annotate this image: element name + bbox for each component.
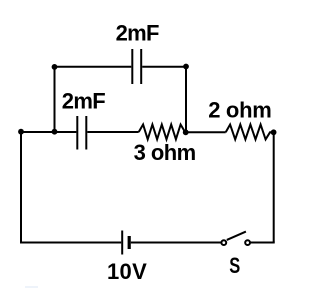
node right junction dot: [271, 129, 277, 135]
battery V1 short plate: [128, 236, 131, 249]
resistor R2 2 ohm zigzag: [226, 125, 274, 140]
switch S lever: [227, 232, 246, 240]
faint artifact mark bottom-left: [25, 286, 38, 288]
capacitor C1 left plate: [131, 49, 133, 84]
wire top branch right segment: [142, 66, 186, 68]
wire vertical from node B down: [185, 67, 187, 133]
svg-text:10V: 10V: [107, 259, 147, 284]
svg-text:3 ohm: 3 ohm: [134, 140, 196, 165]
wire bottom left segment: [20, 242, 121, 244]
battery V1 long plate: [121, 231, 123, 255]
svg-text:2 ohm: 2 ohm: [208, 98, 271, 123]
wire left vertical: [20, 132, 22, 244]
switch S left terminal circle: [221, 240, 226, 245]
switch S right terminal circle: [245, 240, 250, 245]
wire top branch left segment: [55, 66, 132, 68]
capacitor C1 right plate: [140, 49, 142, 84]
wire right vertical: [273, 132, 275, 242]
wire middle row right segment: [186, 131, 226, 133]
capacitor C2 left plate: [76, 116, 78, 150]
svg-text:S: S: [229, 253, 240, 278]
wire middle row left segment: [21, 131, 76, 133]
resistor R1 3 ohm zigzag: [139, 125, 186, 140]
svg-text:2mF: 2mF: [116, 21, 159, 46]
node B top-right junction dot: [183, 64, 189, 70]
wire battery to switch: [131, 242, 222, 244]
node A top-left junction dot: [52, 64, 58, 70]
node middle-left junction dot: [18, 129, 24, 135]
wire switch to right corner: [250, 242, 275, 244]
node middle junction dot: [52, 129, 58, 135]
wire vertical from node A down: [54, 67, 56, 132]
svg-text:2mF: 2mF: [62, 89, 105, 114]
capacitor C2 right plate: [85, 116, 87, 150]
node resistor junction dot: [183, 129, 189, 135]
wire middle row mid segment: [87, 131, 138, 133]
